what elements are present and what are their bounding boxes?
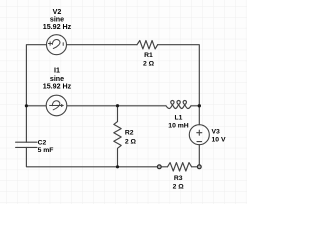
svg-text:V3: V3 (212, 129, 221, 136)
svg-text:R1: R1 (144, 52, 153, 59)
capacitor C2 (16, 142, 37, 147)
terminal ring bottom-right (197, 165, 201, 169)
resistor R3 (168, 163, 192, 171)
wire V2 to R1 (67, 44, 138, 46)
V2 sine squiggle (52, 39, 60, 48)
svg-text:sine: sine (50, 75, 64, 83)
label R3 name and value (173, 175, 185, 191)
V2 circle body (47, 35, 67, 55)
junction R2 bottom (116, 165, 119, 168)
svg-text:R3: R3 (174, 175, 183, 182)
wire I1 to R2 junction to L1 (67, 105, 166, 107)
V3 plus sign (197, 130, 202, 135)
I1 sine squiggle (52, 101, 60, 110)
C2 bottom plate (16, 146, 37, 148)
voltage source V2 (47, 35, 67, 55)
wire V3 to bottom-right junction (198, 145, 200, 167)
label V3 name and value (212, 129, 226, 144)
junction L1 / right rail (198, 104, 201, 107)
V2 minus tick (62, 43, 64, 46)
wire middle row: left rail to I1 (26, 105, 46, 107)
I1 arrow shaft (50, 105, 62, 107)
wire C2 to bottom-left corner (26, 147, 159, 166)
current source I1 (46, 95, 67, 116)
label R2 name and value (125, 130, 137, 146)
svg-text:15.92 Hz: 15.92 Hz (43, 83, 72, 91)
label C2 name and value (38, 140, 54, 154)
label L1 name and value (168, 114, 188, 129)
svg-text:L1: L1 (175, 114, 183, 121)
terminal ring bottom wire / R3 left (157, 165, 161, 169)
svg-text:5 mF: 5 mF (38, 147, 54, 154)
wire L1 to right rail (191, 105, 199, 107)
junction R2 top (116, 104, 119, 107)
V3 minus sign (197, 141, 202, 143)
R2 zigzag (114, 122, 121, 149)
svg-text:C2: C2 (38, 140, 47, 147)
svg-text:10 mH: 10 mH (168, 122, 188, 129)
wire right rail down to V3 (198, 106, 200, 125)
label I1 name and value (43, 67, 72, 91)
label R1 name and value (143, 52, 155, 67)
wire R3 to bottom-right junction (192, 166, 200, 168)
V2 plus sign (48, 42, 51, 45)
wire R2 bottom lead (117, 149, 119, 167)
wire top-left corner to V2 (26, 45, 46, 106)
wire left rail V2..I1 row down to C2 (25, 106, 27, 142)
resistor R2 (114, 106, 121, 167)
svg-text:15.92 Hz: 15.92 Hz (43, 23, 72, 31)
svg-text:I1: I1 (54, 67, 60, 75)
voltage source V3 (189, 125, 209, 145)
svg-text:R2: R2 (125, 130, 134, 137)
label V2 name and value (43, 8, 72, 31)
svg-text:10 V: 10 V (212, 137, 226, 144)
svg-text:2 Ω: 2 Ω (125, 138, 137, 145)
resistor R1 (137, 41, 158, 49)
svg-text:2 Ω: 2 Ω (173, 184, 185, 191)
I1 arrow head (61, 104, 64, 107)
junction left rail / middle row (25, 104, 28, 107)
C2 top plate (16, 141, 37, 143)
svg-text:2 Ω: 2 Ω (143, 60, 155, 67)
wire bottom: junction to R3 (159, 166, 167, 168)
inductor L1 (166, 100, 191, 108)
V3 circle body (189, 125, 209, 145)
wire R2 top lead (117, 106, 119, 122)
wire R1 to top-right corner (158, 45, 200, 106)
I1 circle body (46, 95, 67, 116)
